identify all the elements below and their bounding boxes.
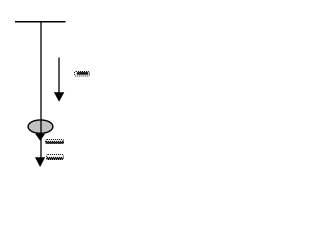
velocity label box (redacted) (75, 72, 90, 77)
string / force shaft wire (40, 21, 42, 159)
net force arrowhead (bottom) (35, 157, 45, 167)
net force label box (redacted) (47, 155, 64, 160)
weight force arrowhead (below ball) (35, 134, 45, 141)
ceiling line (15, 21, 66, 23)
ball (gray ellipse) (28, 120, 53, 133)
weight force label box (redacted) (46, 140, 64, 144)
velocity arrowhead (54, 92, 64, 102)
velocity arrow shaft (58, 58, 60, 95)
